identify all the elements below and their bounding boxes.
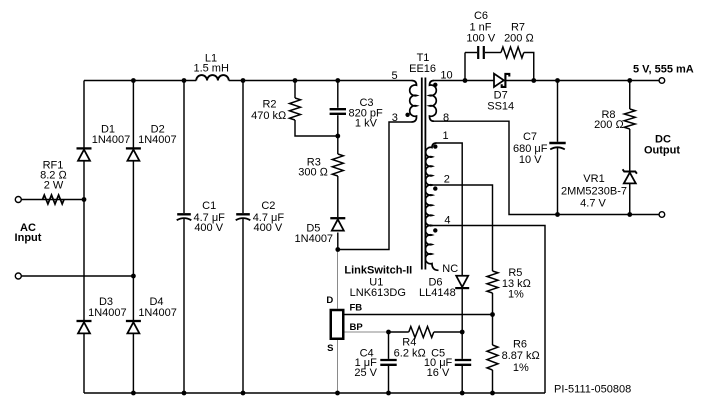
junction dot return rail C7 — [555, 212, 560, 217]
junction dot ground rail C1 — [182, 391, 187, 396]
junction dot output rail C7 — [555, 78, 560, 83]
junction dot ground rail C5 — [460, 391, 465, 396]
polarity dot transformer pin 10 — [433, 83, 437, 87]
svg-text:1N4007: 1N4007 — [92, 134, 131, 146]
junction dot clamp node R2/C3 — [335, 134, 340, 139]
junction dot output rail snubber right — [531, 78, 536, 83]
svg-text:Output: Output — [644, 145, 680, 157]
svg-text:6.2 kΩ: 6.2 kΩ — [394, 348, 427, 360]
wire C7 branch bottom — [557, 147, 559, 214]
terminal AC input line 2 — [15, 273, 21, 279]
wire source S connection of U1 to ground rail — [337, 340, 339, 393]
svg-text:8.87 kΩ: 8.87 kΩ — [502, 350, 541, 362]
wire snubber C6 to R7 — [485, 52, 501, 54]
polarity dot transformer pin 1 — [433, 144, 437, 148]
diode D7 SS14 schottky — [494, 74, 509, 87]
wire top DC bus rail — [84, 80, 196, 82]
svg-text:1N4007: 1N4007 — [295, 233, 334, 245]
wire D6 cathode to BP node — [461, 288, 463, 333]
resistor R8 200 Ohm — [624, 109, 635, 129]
junction dot BP C5/D6 node — [460, 330, 465, 335]
svg-text:1: 1 — [442, 130, 448, 142]
svg-text:10: 10 — [440, 70, 452, 82]
wire C3 bottom to node — [337, 115, 339, 154]
wire C5 branch bottom — [461, 366, 463, 393]
diode D6 LL4148 — [455, 276, 469, 288]
resistor R6 8.87 kOhm — [487, 345, 498, 370]
svg-text:10 V: 10 V — [519, 154, 542, 166]
junction dot AC2 node — [131, 274, 136, 279]
U1 LinkSwitch-II LNK613DG body — [331, 310, 344, 339]
wire snubber left leg — [464, 53, 466, 81]
wire C1 vertical top — [183, 81, 185, 214]
wire C4 branch top — [388, 332, 390, 359]
wire C7 branch top — [557, 81, 559, 142]
junction dot top rail C3 — [335, 78, 340, 83]
wire R2 branch from rail — [294, 81, 296, 99]
svg-text:2MM5230B-7: 2MM5230B-7 — [561, 186, 627, 198]
svg-text:LinkSwitch-II: LinkSwitch-II — [344, 265, 412, 277]
svg-text:C7: C7 — [523, 131, 537, 143]
diode D5 1N4007 clamp — [330, 218, 345, 230]
svg-text:1N4007: 1N4007 — [138, 134, 177, 146]
svg-text:1N4007: 1N4007 — [138, 307, 177, 319]
junction dot top rail C1 — [182, 78, 187, 83]
junction dot ground rail C4 — [386, 391, 391, 396]
diode D2 1N4007 — [126, 148, 141, 160]
wire branch vertical D2/D4 (x=133.4) — [132, 81, 134, 394]
svg-text:5 V, 555 mA: 5 V, 555 mA — [633, 63, 694, 75]
svg-text:1 kV: 1 kV — [355, 117, 378, 129]
svg-text:S: S — [327, 343, 333, 354]
svg-text:NC: NC — [442, 263, 458, 275]
wire snubber right leg — [524, 53, 534, 81]
svg-text:400 V: 400 V — [254, 222, 283, 234]
svg-text:SS14: SS14 — [487, 101, 514, 113]
svg-text:Input: Input — [15, 232, 42, 244]
junction dot top rail D2 — [131, 78, 136, 83]
transformer T1 EE16 primary winding pins 5-3 — [410, 81, 417, 123]
diode D1 1N4007 — [77, 148, 92, 160]
resistor R3 300 Ohm — [332, 154, 343, 176]
svg-text:5: 5 — [391, 70, 397, 82]
svg-text:2: 2 — [444, 173, 450, 185]
polarity dot transformer pin 2 section — [433, 186, 437, 190]
svg-text:C1: C1 — [202, 200, 216, 212]
wire top rail after L1 into transformer pin 5 — [229, 80, 412, 82]
polarity dot transformer pin 4 section — [433, 228, 437, 232]
svg-text:EE16: EE16 — [409, 63, 436, 75]
svg-text:R2: R2 — [262, 98, 276, 110]
resistor R5 13 kOhm — [487, 271, 498, 293]
capacitor C4 1 uF 25 V — [380, 360, 396, 365]
wire R4 right to C5/D6 node — [434, 331, 462, 333]
wire secondary pin 10 to output rail — [434, 80, 659, 82]
junction dot ground rail C2 — [241, 391, 246, 396]
svg-text:R6: R6 — [513, 338, 527, 350]
svg-text:200 Ω: 200 Ω — [594, 119, 624, 131]
junction dot BP C4 node — [386, 330, 391, 335]
wire R3 to D5 — [337, 176, 339, 217]
resistor R2 470 kOhm — [290, 98, 301, 120]
wire C2 vertical bottom — [242, 218, 244, 393]
resistor R4 6.2 kOhm — [409, 327, 434, 338]
junction dot drain node — [335, 247, 340, 252]
wire VR1 anode to return rail — [629, 184, 631, 215]
svg-text:200 Ω: 200 Ω — [504, 33, 534, 45]
wire snubber top left segment — [465, 52, 477, 54]
capacitor C2 4.7 uF 400 V — [236, 214, 251, 220]
junction dot output rail snubber left — [463, 78, 468, 83]
terminal AC input line 1 — [15, 197, 21, 203]
capacitor C7 680 uF 10 V — [549, 143, 565, 149]
svg-text:1%: 1% — [513, 362, 529, 374]
wire BP stub from U1 (grey) — [345, 331, 389, 333]
junction dot return rail VR1 — [627, 212, 632, 217]
junction dot ground rail D2/D4 — [131, 391, 136, 396]
capacitor C1 4.7 uF 400 V — [177, 214, 192, 220]
junction dot RF1 node — [82, 197, 87, 202]
wire pin 4 to ground return — [432, 226, 545, 394]
wire FB line — [345, 314, 493, 316]
svg-text:2 W: 2 W — [44, 179, 64, 191]
svg-text:FB: FB — [350, 303, 363, 314]
svg-text:D: D — [326, 295, 333, 306]
wire C1 vertical bottom — [183, 218, 185, 393]
svg-text:PI-5111-050808: PI-5111-050808 — [554, 384, 631, 396]
wire bottom primary ground rail — [84, 392, 545, 394]
svg-text:LNK613DG: LNK613DG — [350, 287, 406, 299]
junction dot ground rail R6 — [490, 391, 495, 396]
svg-text:LL4148: LL4148 — [419, 287, 456, 299]
svg-text:300 Ω: 300 Ω — [298, 166, 328, 178]
wire pin 2 to R5 — [432, 185, 493, 271]
polarity dot transformer pin 3 — [405, 113, 409, 117]
svg-text:4.7 V: 4.7 V — [580, 197, 606, 209]
junction dot output rail R8 — [627, 78, 632, 83]
wire secondary return rail pin 8 to output terminal — [434, 121, 659, 214]
wire drain node to pin 3 elbow — [338, 122, 412, 250]
wire R8 branch from output rail — [629, 81, 631, 110]
svg-text:C2: C2 — [261, 200, 275, 212]
svg-text:C6: C6 — [474, 10, 488, 22]
svg-text:25 V: 25 V — [354, 367, 377, 379]
diode D4 1N4007 — [126, 321, 141, 333]
diode D3 1N4007 — [77, 321, 92, 333]
wire R2 bottom to clamp node — [295, 120, 338, 136]
wire BP node to R4 — [389, 331, 409, 333]
svg-text:3: 3 — [392, 112, 398, 124]
wire C3 top branch — [337, 81, 339, 108]
wire R5/R6 mid node vertical — [492, 293, 494, 345]
wire C2 vertical top — [242, 81, 244, 214]
junction dot top rail R2 — [293, 78, 298, 83]
wire C4 branch bottom — [388, 366, 390, 393]
capacitor C6 1 nF 100 V — [478, 46, 484, 59]
wire R8 to VR1 — [629, 129, 631, 172]
transformer T1 bias winding pins 1-2-4-NC — [425, 143, 438, 270]
svg-text:100 V: 100 V — [466, 33, 495, 45]
resistor R7 200 Ohm — [501, 47, 524, 58]
inductor L1 1.5 mH — [196, 75, 229, 80]
svg-text:1.5 mH: 1.5 mH — [193, 62, 229, 74]
svg-text:400 V: 400 V — [194, 222, 223, 234]
svg-text:4: 4 — [444, 214, 450, 226]
capacitor C5 10 uF 16 V — [455, 360, 471, 365]
svg-text:1%: 1% — [508, 288, 524, 300]
wire drain D connection to U1 — [337, 250, 339, 309]
transformer T1 secondary winding pins 10-8 — [430, 81, 437, 122]
transformer T1 core — [422, 78, 426, 270]
svg-text:470 kΩ: 470 kΩ — [251, 110, 287, 122]
svg-text:R4: R4 — [402, 336, 416, 348]
terminal DC output return — [659, 212, 665, 218]
wire C5 branch top — [461, 332, 463, 359]
junction dot ground rail U1 source — [335, 391, 340, 396]
svg-text:VR1: VR1 — [583, 173, 604, 185]
terminal DC output positive — [659, 78, 665, 84]
svg-text:8: 8 — [443, 112, 449, 124]
capacitor C3 820 pF 1 kV — [330, 109, 346, 114]
wire D5 anode to drain node — [337, 233, 339, 250]
wire AC line 2 from input terminal to D2/D4 branch — [21, 275, 133, 277]
resistor RF1 8.2 ohm 2 W — [43, 195, 65, 204]
wire left branch vertical D1/D3 (x=84) — [83, 81, 85, 394]
zener diode VR1 2MM5230B-7 — [623, 169, 637, 183]
wire R6 bottom to rail — [492, 370, 494, 393]
svg-text:BP: BP — [350, 322, 364, 333]
wire pin 1 to D6 — [437, 143, 463, 276]
wire AC line 1 from input terminal to bridge — [21, 199, 84, 201]
junction dot top rail C2 — [241, 78, 246, 83]
junction dot FB divider node — [490, 312, 495, 317]
svg-text:16 V: 16 V — [427, 367, 450, 379]
svg-text:1N4007: 1N4007 — [88, 307, 127, 319]
